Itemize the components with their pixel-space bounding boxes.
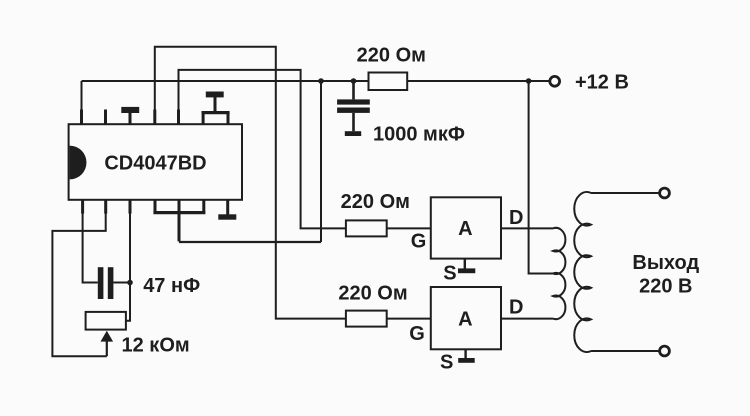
svg-text:G: G — [409, 323, 425, 345]
svg-text:220 В: 220 В — [639, 276, 692, 298]
svg-text:D: D — [509, 297, 523, 319]
svg-text:A: A — [458, 218, 472, 240]
svg-text:220 Ом: 220 Ом — [338, 283, 407, 305]
svg-text:12 кОм: 12 кОм — [122, 334, 190, 356]
svg-text:D: D — [509, 207, 523, 229]
svg-text:220 Ом: 220 Ом — [357, 45, 426, 67]
svg-text:A: A — [458, 309, 472, 331]
svg-text:G: G — [411, 230, 427, 252]
svg-text:CD4047BD: CD4047BD — [104, 153, 206, 175]
svg-text:1000 мкФ: 1000 мкФ — [373, 124, 465, 146]
svg-text:220 Ом: 220 Ом — [341, 191, 410, 213]
svg-text:47 нФ: 47 нФ — [143, 275, 200, 297]
svg-text:S: S — [440, 352, 453, 374]
svg-text:S: S — [443, 262, 456, 284]
svg-text:+12 В: +12 В — [575, 72, 629, 94]
svg-text:Выход: Выход — [632, 252, 699, 274]
